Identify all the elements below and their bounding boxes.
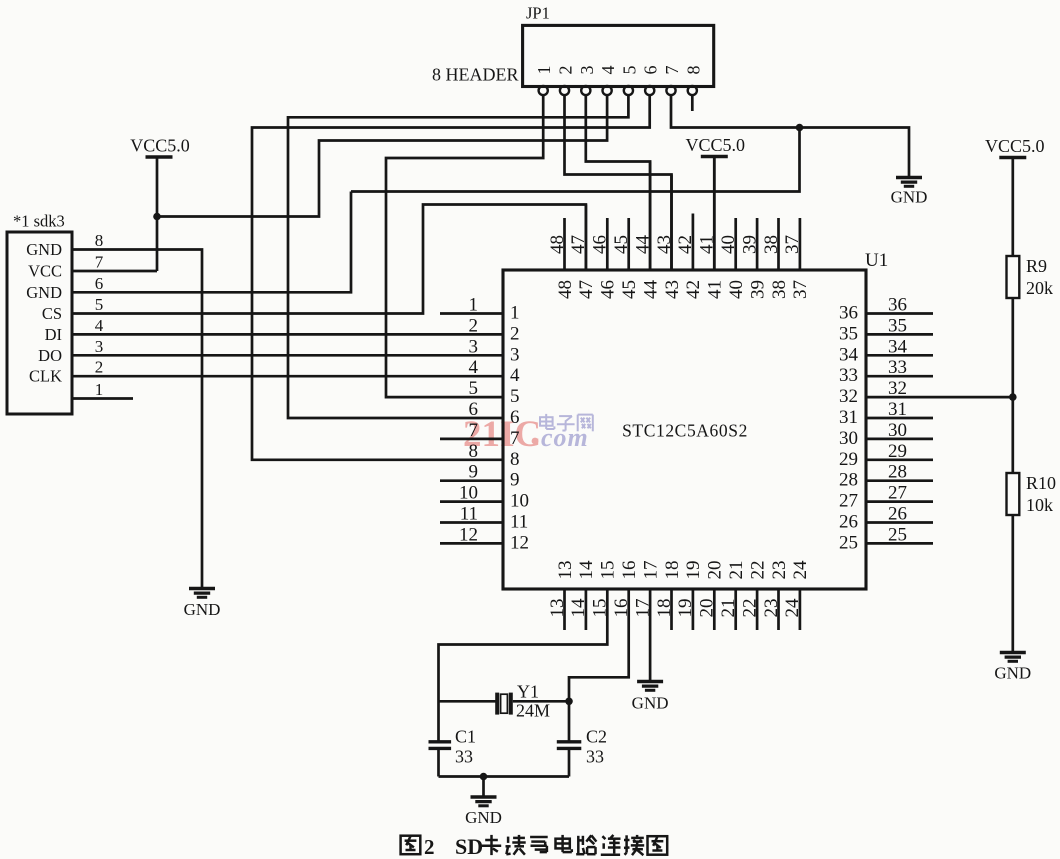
- svg-text:37: 37: [782, 235, 803, 254]
- wire R9 to R10: [1011, 298, 1014, 473]
- svg-text:32: 32: [888, 378, 907, 399]
- svg-text:DI: DI: [45, 325, 62, 344]
- wire sdk3 pin1 stub: [72, 397, 133, 400]
- svg-text:41: 41: [697, 235, 718, 254]
- svg-text:38: 38: [769, 280, 790, 299]
- svg-text:2: 2: [95, 358, 104, 377]
- JP1 pin circles: [539, 86, 697, 95]
- wire capacitor commons to ground: [439, 775, 570, 778]
- svg-text:34: 34: [888, 336, 908, 357]
- svg-text:23: 23: [761, 599, 782, 618]
- svg-text:9: 9: [510, 470, 520, 491]
- svg-text:12: 12: [459, 524, 478, 545]
- wire R10 to ground: [1011, 515, 1014, 653]
- svg-text:4: 4: [598, 66, 618, 75]
- wire sdk3 pin3 DO to U1 pin3: [72, 354, 503, 357]
- svg-text:3: 3: [469, 336, 479, 357]
- svg-text:33: 33: [888, 357, 907, 378]
- svg-text:CS: CS: [42, 304, 62, 323]
- svg-text:21: 21: [726, 561, 747, 580]
- capacitor C2 33: [557, 727, 607, 777]
- svg-text:44: 44: [640, 280, 661, 300]
- svg-text:33: 33: [839, 365, 858, 386]
- svg-text:27: 27: [839, 491, 858, 512]
- svg-text:2: 2: [469, 315, 479, 336]
- svg-text:44: 44: [632, 235, 653, 255]
- svg-text:1: 1: [469, 295, 479, 316]
- svg-text:4: 4: [95, 316, 104, 335]
- svg-text:5: 5: [469, 378, 479, 399]
- ground GND (bottom right): [994, 653, 1031, 683]
- svg-text:30: 30: [888, 420, 907, 441]
- node junction gnd net: [796, 124, 804, 132]
- svg-text:8: 8: [683, 66, 703, 75]
- svg-text:36: 36: [839, 303, 858, 324]
- svg-text:14: 14: [568, 598, 589, 618]
- svg-text:36: 36: [888, 295, 907, 316]
- svg-text:47: 47: [576, 280, 597, 299]
- wire U1 pin17 to ground: [649, 589, 652, 682]
- svg-text:26: 26: [888, 504, 907, 525]
- svg-text:C2: C2: [586, 727, 607, 747]
- svg-text:4: 4: [469, 357, 479, 378]
- wire sdk3 pin2 CLK to U1 pin4: [72, 375, 503, 378]
- svg-text:38: 38: [761, 235, 782, 254]
- svg-text:23: 23: [769, 561, 790, 580]
- svg-text:20k: 20k: [1026, 278, 1053, 298]
- wire JP1 pin5 to U1 pin6: [288, 95, 628, 418]
- svg-text:43: 43: [654, 235, 675, 254]
- wire VCC center to U1 pin41: [713, 157, 716, 271]
- U1 left outer pin numbers 1-12: [459, 295, 479, 546]
- svg-text:48: 48: [555, 280, 576, 299]
- svg-text:1: 1: [534, 66, 554, 75]
- U1 top free pin stubs 48,46,45,42,40-37: [565, 214, 800, 271]
- svg-text:3: 3: [577, 66, 597, 75]
- svg-text:24M: 24M: [516, 701, 550, 721]
- svg-text:GND: GND: [26, 240, 62, 259]
- svg-text:VCC5.0: VCC5.0: [130, 136, 190, 156]
- svg-text:13: 13: [555, 561, 576, 580]
- svg-text:14: 14: [576, 560, 597, 580]
- svg-text:33: 33: [586, 747, 604, 767]
- svg-text:17: 17: [640, 561, 661, 580]
- svg-text:29: 29: [888, 441, 907, 462]
- svg-text:6: 6: [95, 274, 104, 293]
- svg-text:6: 6: [641, 66, 661, 75]
- wire U1 pin15 to crystal left node: [439, 589, 608, 741]
- svg-text:28: 28: [888, 462, 907, 483]
- svg-text:U1: U1: [865, 250, 888, 271]
- svg-text:47: 47: [568, 235, 589, 254]
- wire JP1 pin2 to U1 pin43: [565, 95, 672, 270]
- wire sdk3 pin8 GND to ground: [72, 250, 202, 589]
- wire VCC right to R9: [1011, 158, 1014, 257]
- svg-text:33: 33: [455, 747, 473, 767]
- svg-text:45: 45: [619, 280, 640, 299]
- ground GND (top right): [891, 178, 928, 207]
- connector *1 sdk3 (SD socket) body: [7, 212, 72, 415]
- svg-text:GND: GND: [632, 694, 669, 713]
- svg-text:20: 20: [697, 599, 718, 618]
- U1 right outer pin numbers 36-25: [888, 295, 908, 546]
- svg-text:15: 15: [598, 561, 619, 580]
- svg-text:26: 26: [839, 512, 858, 533]
- svg-text:48: 48: [547, 235, 568, 254]
- JP1 pin numbers 1-8 (rotated): [534, 66, 703, 75]
- svg-text:29: 29: [839, 449, 858, 470]
- svg-text:2: 2: [510, 323, 520, 344]
- U1 bottom free pin stubs: [565, 589, 800, 630]
- svg-text:7: 7: [662, 66, 682, 75]
- resistor R9 20k: [1007, 256, 1054, 298]
- svg-text:8 HEADER: 8 HEADER: [432, 65, 519, 85]
- wire VCC branch to JP1 pin4: [157, 95, 607, 216]
- svg-text:3: 3: [95, 337, 104, 356]
- svg-text:VCC5.0: VCC5.0: [686, 135, 746, 155]
- svg-text:2: 2: [424, 835, 435, 859]
- svg-text:3: 3: [510, 344, 520, 365]
- svg-text:11: 11: [510, 512, 528, 533]
- svg-text:9: 9: [469, 462, 479, 483]
- svg-text:10: 10: [510, 491, 529, 512]
- svg-text:CLK: CLK: [29, 367, 62, 386]
- svg-text:24: 24: [790, 560, 811, 580]
- svg-text:10: 10: [459, 483, 478, 504]
- svg-text:11: 11: [460, 504, 478, 525]
- svg-text:43: 43: [662, 280, 683, 299]
- svg-text:39: 39: [747, 280, 768, 299]
- svg-text:28: 28: [839, 470, 858, 491]
- wire sdk3 pin7 VCC stub: [72, 270, 157, 273]
- svg-text:46: 46: [590, 235, 611, 254]
- svg-text:C1: C1: [455, 727, 476, 747]
- svg-text:GND: GND: [891, 188, 928, 207]
- svg-text:7: 7: [95, 253, 104, 272]
- svg-text:8: 8: [469, 441, 479, 462]
- svg-text:24: 24: [782, 598, 803, 618]
- svg-text:16: 16: [619, 561, 640, 580]
- wire JP1 pin6 to U1 pin8: [252, 95, 650, 460]
- svg-text:12: 12: [510, 532, 529, 553]
- svg-text:SD: SD: [455, 834, 483, 859]
- svg-text:5: 5: [95, 295, 104, 314]
- svg-text:Y1: Y1: [517, 682, 539, 702]
- wire sdk3 pin5 CS to U1 pin47: [72, 205, 586, 314]
- capacitor C1 33: [429, 727, 477, 777]
- svg-text:18: 18: [654, 599, 675, 618]
- svg-text:GND: GND: [994, 664, 1031, 683]
- svg-text:6: 6: [510, 407, 520, 428]
- wire gnd net vertical branch: [351, 128, 800, 192]
- wire JP1 pin8 stub: [691, 95, 694, 111]
- svg-text:25: 25: [888, 524, 907, 545]
- svg-text:34: 34: [839, 344, 859, 365]
- svg-text:20: 20: [705, 561, 726, 580]
- resistor R10 10k: [1007, 473, 1057, 515]
- svg-text:R9: R9: [1026, 256, 1047, 276]
- svg-text:JP1: JP1: [526, 4, 550, 23]
- wire U1 pin16 to crystal right node: [569, 589, 629, 741]
- svg-text:6: 6: [469, 399, 479, 420]
- wire stem to crystal ground: [482, 777, 485, 798]
- svg-text:5: 5: [619, 66, 639, 75]
- svg-text:40: 40: [726, 280, 747, 299]
- wire JP1 pin1 to U1 pin5: [386, 95, 543, 397]
- power VCC5.0 (left): [130, 136, 190, 158]
- svg-text:GND: GND: [465, 808, 502, 827]
- svg-text:46: 46: [598, 280, 619, 299]
- svg-text:13: 13: [547, 599, 568, 618]
- U1 top connected pin stubs 47,44,43,41: [586, 157, 714, 271]
- U1 bottom outer pin numbers 13-24: [547, 598, 803, 618]
- svg-text:32: 32: [839, 386, 858, 407]
- caption 图2 SD卡读写电路连接图: [401, 834, 668, 859]
- svg-text:22: 22: [747, 561, 768, 580]
- svg-text:1: 1: [510, 303, 520, 324]
- svg-text:8: 8: [95, 231, 104, 250]
- svg-text:42: 42: [675, 235, 696, 254]
- U1 top outer pin numbers 48-37: [547, 235, 803, 255]
- svg-text:STC12C5A60S2: STC12C5A60S2: [622, 421, 748, 441]
- svg-text:GND: GND: [184, 600, 221, 619]
- U1 left free pin stubs 1,7,9-12: [440, 314, 503, 544]
- power VCC5.0 (right): [985, 136, 1045, 158]
- ground GND (U1 pin17): [632, 682, 669, 713]
- svg-text:1: 1: [95, 380, 104, 399]
- wire JP1 pin7 to ground (right): [671, 95, 909, 177]
- watermark 电子网 text: [540, 414, 593, 431]
- svg-text:27: 27: [888, 483, 907, 504]
- svg-text:18: 18: [662, 561, 683, 580]
- svg-text:19: 19: [675, 599, 696, 618]
- svg-text:7: 7: [469, 420, 479, 441]
- svg-text:VCC5.0: VCC5.0: [985, 136, 1045, 156]
- svg-text:41: 41: [705, 280, 726, 299]
- node junction crystal right / C2: [565, 698, 573, 706]
- watermark 21IC.com logo: [463, 414, 589, 455]
- svg-text:22: 22: [739, 599, 760, 618]
- svg-text:GND: GND: [26, 283, 62, 302]
- svg-text:30: 30: [839, 428, 858, 449]
- ground GND (below sdk3): [184, 589, 221, 620]
- wire sdk3 pin6 GND to gnd net: [72, 192, 351, 293]
- crystal Y1 24M: [439, 682, 570, 721]
- svg-text:4: 4: [510, 365, 520, 386]
- connector JP1 body: [432, 4, 714, 87]
- svg-text:R10: R10: [1026, 473, 1056, 493]
- svg-text:8: 8: [510, 449, 520, 470]
- U1 top inner pin numbers 48-37: [555, 280, 811, 300]
- wire JP1 pin3 to U1 pin44: [586, 95, 650, 270]
- svg-text:7: 7: [510, 428, 520, 449]
- svg-text:2: 2: [555, 66, 575, 75]
- node junction crystal gnd: [480, 773, 488, 781]
- svg-text:19: 19: [683, 561, 704, 580]
- power VCC5.0 (center): [686, 135, 746, 157]
- wire VCC5.0 left rail down: [156, 157, 159, 271]
- svg-text:VCC: VCC: [28, 262, 62, 281]
- ground GND (crystal): [465, 797, 502, 827]
- svg-text:DO: DO: [38, 346, 62, 365]
- U1 right free pin stubs 36-25: [866, 314, 933, 544]
- node junction VCC left branch: [153, 213, 161, 221]
- svg-text:35: 35: [839, 323, 858, 344]
- svg-text:42: 42: [683, 280, 704, 299]
- svg-text:35: 35: [888, 315, 907, 336]
- connector sdk3 pin numbers 8..1: [95, 231, 104, 399]
- svg-text:5: 5: [510, 386, 520, 407]
- wire U1 pin32 to resistor divider: [866, 396, 1013, 399]
- svg-text:21: 21: [718, 599, 739, 618]
- U1 left inner pin numbers 1-12: [510, 303, 529, 554]
- U1 bottom inner pin numbers 13-24: [555, 560, 811, 580]
- op IC U1 STC12C5A60S2 body: [503, 250, 888, 589]
- svg-text:*1 sdk3: *1 sdk3: [13, 212, 65, 231]
- svg-text:37: 37: [790, 280, 811, 299]
- svg-text:31: 31: [888, 399, 907, 420]
- wire sdk3 pin4 DI to U1 pin2: [72, 333, 503, 336]
- svg-text:45: 45: [611, 235, 632, 254]
- connector sdk3 pin name labels: [26, 240, 62, 386]
- node junction divider / U1 pin32: [1009, 393, 1017, 401]
- svg-text:31: 31: [839, 407, 858, 428]
- svg-text:10k: 10k: [1026, 495, 1053, 515]
- svg-text:25: 25: [839, 532, 858, 553]
- svg-text:40: 40: [718, 235, 739, 254]
- U1 right inner pin numbers 36-25: [839, 303, 859, 554]
- svg-text:39: 39: [739, 235, 760, 254]
